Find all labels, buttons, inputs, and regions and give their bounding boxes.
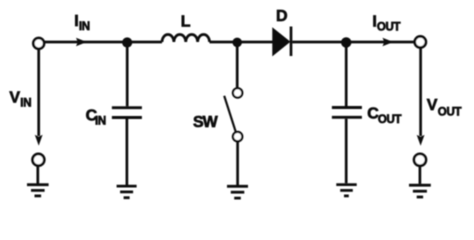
ground (SW) (227, 186, 248, 198)
V_IN sense wire (37, 49, 40, 136)
capacitor C_OUT plates (332, 108, 362, 118)
wire diode to output terminal (292, 41, 415, 44)
V_OUT sense wire (419, 48, 422, 136)
switch SW blade (224, 96, 236, 132)
output terminal circle (415, 36, 426, 47)
wire C_IN to ground (126, 119, 129, 185)
V_OUT arrowhead down (417, 135, 425, 146)
V_IN lower terminal circle (33, 154, 45, 166)
wire switch to ground (236, 141, 239, 185)
svg-text:OUT: OUT (438, 106, 462, 118)
V_IN ground stem (36, 166, 39, 185)
capacitor C_IN plates (112, 108, 142, 118)
inductor L (162, 35, 210, 43)
node B (SW junction) (232, 38, 242, 48)
svg-text:OUT: OUT (378, 114, 402, 126)
I_IN current arrowhead (76, 38, 87, 47)
svg-text:V: V (9, 89, 20, 106)
switch SW bottom contact circle (233, 132, 242, 141)
svg-text:SW: SW (193, 114, 219, 131)
node A (C_IN junction) (122, 37, 132, 47)
V_OUT ground stem (419, 166, 422, 184)
switch SW top contact circle (233, 88, 242, 97)
ground (input) (27, 185, 49, 196)
svg-text:IN: IN (95, 116, 106, 128)
input terminal circle (33, 38, 44, 49)
wire C_OUT to ground (345, 119, 348, 184)
svg-text:IN: IN (79, 21, 90, 33)
diode D cathode bar (290, 27, 293, 57)
svg-text:D: D (276, 8, 288, 25)
V_OUT lower terminal circle (414, 154, 426, 166)
svg-text:V: V (427, 97, 438, 114)
V_IN arrowhead down (35, 135, 43, 146)
wire inductor to diode (210, 41, 274, 44)
svg-text:OUT: OUT (377, 21, 401, 33)
ground (C_IN) (117, 186, 137, 198)
wire input to inductor (45, 41, 163, 44)
ground (C_OUT) (336, 185, 356, 196)
node C (C_OUT junction) (341, 37, 351, 47)
svg-text:IN: IN (20, 98, 31, 110)
wire node C to C_OUT (345, 47, 348, 106)
I_OUT current arrowhead (383, 38, 394, 47)
svg-text:L: L (181, 13, 191, 30)
wire node B to switch (236, 47, 239, 88)
ground (output) (409, 185, 431, 197)
diode D anode triangle (273, 29, 290, 56)
wire node A to C_IN (126, 47, 129, 106)
